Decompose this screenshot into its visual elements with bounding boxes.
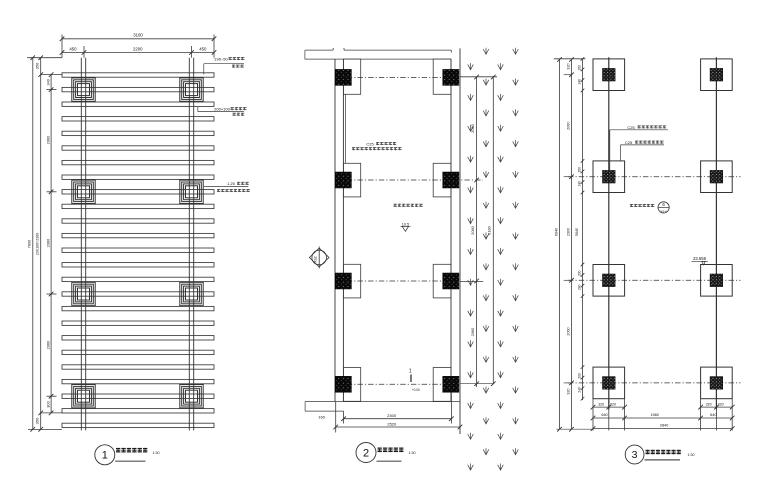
svg-text:2840: 2840 (660, 424, 668, 428)
svg-text:160: 160 (318, 415, 325, 420)
svg-text:6180: 6180 (486, 225, 491, 234)
column seat bracket left row 3 (343, 264, 360, 298)
title 2 text (378, 448, 404, 453)
C25 structure note (346, 94, 402, 163)
dim row 640/1560/640 (591, 413, 735, 420)
title 1 text (116, 448, 147, 453)
footing column hatch row2 x716.4 (710, 170, 723, 183)
svg-text:190~50: 190~50 (214, 56, 228, 61)
svg-text:200: 200 (577, 373, 581, 379)
svg-text:320: 320 (610, 402, 616, 406)
column grid line right (715, 57, 717, 409)
annotation 200x100 beam (198, 107, 247, 116)
svg-text:2060: 2060 (566, 122, 570, 130)
planting dim line B (476, 77, 478, 387)
footing row3 x608.8 (593, 265, 625, 297)
svg-text:2060: 2060 (470, 123, 475, 132)
svg-text:320: 320 (566, 388, 570, 394)
left dim chain lines (33, 58, 51, 430)
svg-text:23X100=2300: 23X100=2300 (36, 233, 40, 255)
svg-text:320: 320 (566, 63, 570, 69)
slat beam 5 (62, 131, 214, 135)
svg-text:200: 200 (577, 65, 581, 71)
section mark 1 (409, 369, 420, 393)
fret motif at 191.5,191.8 (180, 180, 203, 203)
svg-text:23.658: 23.658 (693, 256, 706, 261)
slat beam 16 (62, 292, 214, 296)
svg-text:640: 640 (710, 413, 716, 417)
left extension lines (27, 58, 62, 430)
footing column hatch row2 x608.8 (603, 170, 616, 183)
centreline row4 solid ext (460, 383, 493, 385)
dim 3100 (panel1 top) (60, 33, 217, 42)
left dim texts (27, 62, 51, 424)
svg-text:350: 350 (35, 417, 40, 424)
right beam inner edge (450, 59, 452, 402)
svg-text:6940: 6940 (554, 228, 558, 236)
title 3 text (646, 450, 681, 454)
column row2 x450.8 (443, 172, 459, 188)
centreline row3 solid ext (460, 281, 483, 283)
slat beam 14 (62, 263, 214, 267)
svg-text:2300: 2300 (566, 228, 570, 236)
slat beam 13 (62, 248, 214, 252)
svg-text:3100: 3100 (133, 33, 143, 38)
svg-text:450: 450 (199, 47, 207, 52)
fret motif at 83.5,396.2 (72, 385, 95, 408)
svg-text:240: 240 (577, 284, 581, 290)
dim ext lines bottom (336, 392, 452, 433)
svg-text:320: 320 (706, 402, 712, 406)
slat beam 2 (62, 87, 214, 91)
svg-text:C25: C25 (627, 125, 635, 130)
fret motif at 191.5,294.0 (180, 282, 203, 305)
title 3 circle (625, 445, 644, 464)
column row4 x450.8 (443, 376, 459, 392)
dim 450/2200/450 (60, 47, 217, 55)
svg-text:1:30: 1:30 (688, 453, 695, 457)
centreline row3 (336, 280, 459, 282)
svg-text:7600: 7600 (27, 239, 32, 248)
bottom walkway edge 1 (305, 401, 460, 403)
column row4 x343.3 (335, 376, 351, 392)
title 2 circle (356, 443, 376, 463)
svg-text:2300: 2300 (387, 413, 397, 418)
footing column hatch row4 x716.4 (710, 377, 723, 390)
foundation centreline row4 (568, 382, 741, 384)
planting top edge (460, 76, 497, 78)
centreline row1 (336, 76, 453, 78)
chain-to-dim ext (557, 428, 594, 430)
fret motif at 83.5,294.0 (72, 282, 95, 305)
fret motif at 83.5,191.8 (72, 180, 95, 203)
footing column hatch row4 x608.8 (603, 377, 616, 390)
svg-text:200: 200 (577, 167, 581, 173)
slat beam 19 (62, 336, 214, 340)
dim row 320s (591, 402, 735, 409)
column seat bracket left row 2 (343, 163, 360, 197)
footing row3 x716.4 (701, 265, 733, 297)
slat beam 3 (62, 102, 214, 106)
svg-text:640: 640 (601, 413, 607, 417)
svg-text:1:30: 1:30 (409, 451, 416, 455)
footing column hatch row1 x608.8 (603, 68, 616, 81)
extension lines top (62, 35, 214, 58)
top path left end (304, 50, 306, 59)
left beam inner edge (342, 59, 344, 402)
paving note text (394, 204, 423, 207)
svg-text:1.25: 1.25 (227, 181, 236, 186)
column seat bracket right row 1 (433, 59, 451, 94)
svg-text:340: 340 (45, 78, 50, 85)
annotation column finish (204, 181, 250, 192)
column seat bracket right row 3 (433, 264, 451, 298)
footing column hatch row3 x608.8 (603, 274, 616, 287)
svg-text:240: 240 (577, 181, 581, 187)
slat beam 6 (62, 146, 214, 150)
footing row2 x608.8 (593, 161, 625, 193)
slat beam 11 (62, 219, 214, 223)
centreline row4 (336, 383, 459, 385)
svg-text:240: 240 (577, 387, 581, 393)
chain ticks (557, 57, 584, 431)
centreline row2 (336, 179, 483, 181)
planting dim texts (470, 123, 491, 336)
slat beam 21 (62, 365, 214, 369)
dim 2840 (591, 424, 735, 431)
svg-text:200×100: 200×100 (214, 107, 230, 112)
slat beam 22 (62, 379, 214, 383)
fret motif at 83.5,89.6 (72, 78, 95, 101)
bottom ext lines (593, 399, 732, 431)
planting dim line C (492, 77, 494, 384)
column row1 x450.8 (443, 69, 459, 85)
left beam outer edge (334, 59, 336, 402)
column seat bracket left row 4 (343, 368, 360, 402)
note C25 column (610, 125, 668, 171)
left dim ticks (30, 55, 53, 431)
footing row1 x716.4 (701, 59, 733, 91)
svg-text:2: 2 (363, 447, 369, 459)
svg-text:320: 320 (718, 402, 724, 406)
svg-text:2060: 2060 (470, 225, 475, 234)
slat beam 4 (62, 117, 214, 121)
svg-text:1:30: 1:30 (153, 451, 160, 455)
post line A1 (80, 58, 82, 431)
slat beam 10 (62, 204, 214, 208)
svg-text:450: 450 (69, 47, 77, 52)
svg-text:1: 1 (102, 450, 108, 462)
top path edge line 2 (305, 58, 451, 60)
planting ground-cover symbols (468, 48, 519, 470)
note C25 foundation (621, 140, 665, 161)
svg-text:2060: 2060 (470, 327, 475, 336)
svg-text:C25: C25 (366, 142, 374, 147)
svg-text:350: 350 (35, 62, 40, 69)
column seat bracket right row 4 (433, 368, 451, 402)
top path edge line 1 (305, 48, 451, 53)
svg-text:200: 200 (577, 270, 581, 276)
svg-text:2520: 2520 (387, 421, 397, 426)
column grid line left (608, 57, 610, 409)
column seat bracket right row 2 (433, 163, 451, 197)
slat beam 9 (62, 190, 214, 194)
svg-text:1: 1 (409, 369, 412, 375)
column row3 x343.3 (335, 273, 351, 289)
dim 2520 (333, 421, 462, 429)
footing row4 x716.4 (701, 367, 733, 399)
footing row4 x608.8 (593, 367, 625, 399)
slat beam 12 (62, 233, 214, 237)
svg-text:2060: 2060 (566, 327, 570, 335)
slat beam 18 (62, 321, 214, 325)
slat beam 15 (62, 277, 214, 281)
svg-text:240: 240 (577, 79, 581, 85)
footing column hatch row1 x716.4 (710, 68, 723, 81)
planting dim ticks (474, 75, 495, 386)
column row3 x450.8 (443, 273, 459, 289)
left chain lines (554, 59, 586, 429)
slat beam 8 (62, 175, 214, 179)
svg-text:C25: C25 (625, 140, 633, 145)
slat beam 20 (62, 350, 214, 354)
slat beam 17 (62, 306, 214, 310)
svg-text:XS2: XS2 (314, 256, 318, 263)
column row2 x343.3 (335, 172, 351, 188)
post line B1 (188, 58, 190, 431)
svg-text:5640: 5640 (575, 228, 579, 236)
footing column hatch row3 x716.4 (710, 274, 723, 287)
chain texts (554, 63, 579, 394)
svg-text:10.5: 10.5 (402, 222, 409, 226)
chain stub exts (564, 75, 572, 383)
bottom walkway edge 2 (305, 410, 344, 412)
column row1 x343.3 (335, 69, 351, 85)
elevation 23.658 (692, 256, 708, 265)
annotation 190x50 beam (204, 56, 245, 74)
post line B2 (193, 58, 195, 431)
foundation centreline row3 (568, 279, 741, 281)
slat beam 25 (62, 423, 214, 427)
slat beam 1 (62, 73, 214, 77)
right beam outer edge / planting border (459, 48, 461, 434)
fret motif at 191.5,396.2 (180, 385, 203, 408)
svg-text:2060: 2060 (45, 238, 50, 247)
svg-text:2060: 2060 (45, 135, 50, 144)
foundation centreline row2 (568, 176, 741, 178)
title 1 circle (95, 445, 115, 465)
column seat bracket left row 1 (343, 59, 360, 94)
slat beam 23 (62, 394, 214, 398)
slat beam 7 (62, 160, 214, 164)
footing row1 x608.8 (593, 59, 625, 91)
elevation reference marker (309, 247, 329, 269)
svg-text:XS-6: XS-6 (660, 210, 667, 214)
slat beam 24 (62, 409, 214, 413)
svg-text:+0.00: +0.00 (412, 388, 420, 392)
svg-text:3: 3 (632, 449, 638, 461)
footing row2 x716.4 (701, 161, 733, 193)
detail bubble (630, 202, 669, 214)
fret motif at 191.5,89.6 (180, 78, 203, 101)
post line A2 (85, 58, 87, 431)
svg-text:2200: 2200 (133, 47, 143, 52)
dim 2300 (341, 413, 453, 421)
svg-text:320: 320 (598, 402, 604, 406)
svg-text:1560: 1560 (650, 413, 658, 417)
svg-text:300: 300 (45, 400, 50, 407)
level mark 10.5 (401, 222, 411, 231)
bottom walkway left end (304, 402, 306, 412)
svg-text:2060: 2060 (45, 340, 50, 349)
